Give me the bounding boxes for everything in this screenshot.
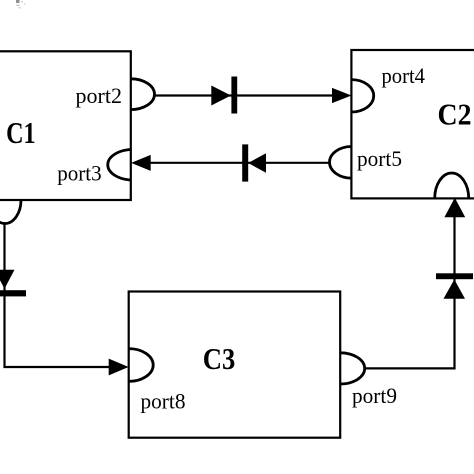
- svg-text:C1: C1: [6, 115, 35, 150]
- svg-text:port8: port8: [141, 389, 186, 414]
- svg-text:C2: C2: [438, 97, 472, 132]
- svg-text:port3: port3: [57, 160, 101, 185]
- svg-text:port4: port4: [382, 63, 426, 88]
- svg-text:port5: port5: [357, 146, 402, 171]
- svg-text:port9: port9: [352, 383, 397, 408]
- svg-text:C3: C3: [203, 341, 236, 376]
- svg-text:port2: port2: [76, 83, 123, 108]
